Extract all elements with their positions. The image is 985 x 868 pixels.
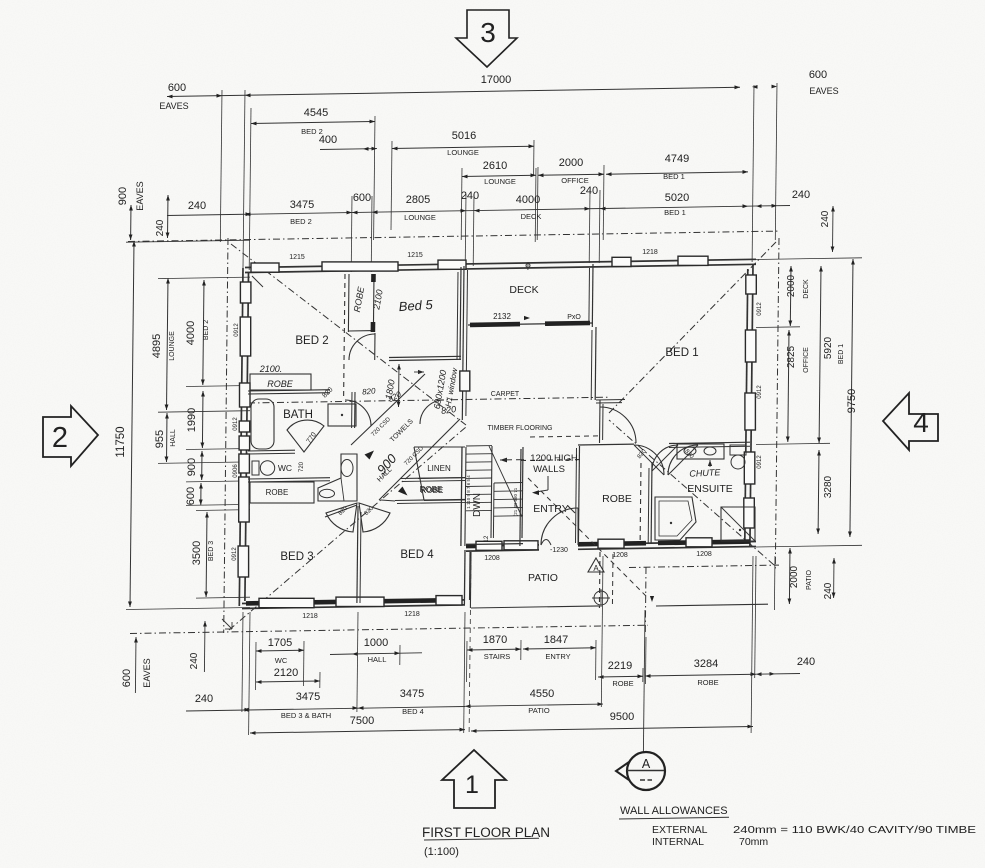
entry door arc 1230	[541, 508, 578, 554]
svg-text:240: 240	[189, 652, 200, 669]
bed5 robe walls	[348, 274, 374, 332]
svg-text:LOUNGE: LOUNGE	[404, 213, 436, 222]
svg-text:ROBE: ROBE	[420, 485, 443, 494]
bed1 door arcs 820x2	[634, 445, 698, 475]
left dim 1990 rotated	[186, 391, 205, 448]
leader line to section circle A	[643, 610, 645, 752]
svg-text:2805: 2805	[406, 194, 430, 206]
svg-text:0912: 0912	[233, 417, 239, 431]
820 label top bed5	[321, 386, 334, 399]
big arrow 2 (west indicator)	[43, 406, 98, 466]
svg-text:900: 900	[186, 458, 198, 476]
right wall window 0912 ensuite	[744, 452, 763, 528]
svg-text:720: 720	[299, 461, 305, 472]
svg-text:900: 900	[117, 187, 129, 205]
bottom dim 1870 STAIRS	[467, 634, 522, 682]
svg-text:70mm: 70mm	[739, 836, 768, 848]
left wall window 0906 wc	[233, 454, 249, 478]
svg-text:FIRST FLOOR PLAN: FIRST FLOOR PLAN	[422, 825, 550, 840]
svg-text:EXTERNAL: EXTERNAL	[652, 824, 708, 836]
carpet label and flooring labels	[488, 391, 553, 432]
door swing arrowheads on hall diagonal	[365, 451, 408, 496]
wall bed2/robe dashed 1200-high	[344, 274, 345, 398]
svg-text:LOUNGE: LOUNGE	[169, 331, 176, 361]
svg-text:PxO: PxO	[567, 314, 581, 321]
patio right slab	[612, 554, 768, 608]
svg-text:EAVES: EAVES	[135, 181, 145, 210]
ensuite west wall	[648, 462, 652, 543]
ensuite vanity two basins	[677, 444, 724, 459]
bed5 walls	[375, 267, 461, 361]
left dim 4000 BED2 rotated	[185, 280, 210, 385]
ensuite wc toilet	[730, 445, 746, 469]
svg-text:240: 240	[797, 656, 815, 668]
svg-text:(1:100): (1:100)	[424, 846, 459, 858]
right dim 2000 PATIO rotated	[788, 548, 814, 604]
left wall windows bath	[233, 383, 250, 450]
dim 4545 BED 2	[251, 107, 375, 240]
dim 2000 OFFICE	[537, 157, 604, 240]
ensuite door arc	[652, 445, 678, 471]
bottom dim 3284 ROBE	[645, 556, 756, 687]
svg-text:1000: 1000	[364, 637, 388, 649]
svg-text:BED 3: BED 3	[208, 541, 215, 561]
svg-text:2: 2	[52, 422, 68, 454]
exterior wall bottom entry section with windows 1208	[466, 541, 539, 562]
svg-text:1215: 1215	[289, 254, 305, 261]
big arrow 4 (east indicator)	[883, 393, 938, 450]
svg-text:PATIO: PATIO	[806, 569, 813, 590]
handwritten 820 deck lower note	[420, 400, 457, 424]
big arrow 1 (south indicator)	[442, 750, 506, 808]
dim 17000 top overall	[167, 74, 740, 98]
hall vanity L-bench	[318, 454, 357, 501]
svg-text:240: 240	[155, 219, 166, 236]
svg-text:1 110 9 8 7 6 5 4: 1 110 9 8 7 6 5 4	[466, 475, 471, 509]
bottom dim 9500	[471, 711, 753, 733]
svg-text:4000: 4000	[185, 321, 197, 345]
dim 2610 LOUNGE	[461, 160, 536, 240]
bottom dim row 240/3475/3475/4550	[186, 688, 603, 720]
svg-text:3475: 3475	[290, 199, 314, 211]
svg-text:2000: 2000	[786, 274, 797, 297]
svg-text:ROBE: ROBE	[697, 678, 718, 687]
svg-text:2120: 2120	[274, 667, 298, 679]
dim 600 EAVES top-left	[159, 82, 250, 111]
svg-text:ROBE: ROBE	[602, 493, 632, 505]
svg-text:4000: 4000	[516, 194, 540, 206]
svg-text:(21 4R 660 71: (21 4R 660 71	[513, 487, 518, 516]
handwritten 690x1200 H1 window note	[414, 366, 460, 410]
wc room	[248, 461, 330, 482]
bed2 door arc	[345, 400, 371, 426]
right dim 240 rotated bottom	[823, 558, 836, 599]
svg-text:400: 400	[319, 134, 337, 146]
svg-text:1870: 1870	[483, 634, 507, 646]
svg-text:LINEN: LINEN	[427, 464, 451, 473]
corner tick at dash-dot bottom-left of bed4	[222, 619, 232, 629]
wall below deck (lounge area) right side	[591, 327, 596, 400]
svg-text:2825: 2825	[786, 345, 797, 368]
right dim 9750 rotated	[846, 259, 858, 537]
svg-text:A: A	[642, 757, 651, 771]
robe room walls	[576, 446, 642, 543]
svg-text:EAVES: EAVES	[159, 101, 188, 111]
svg-text:WC: WC	[278, 463, 292, 473]
top wall pier boxes	[251, 256, 708, 272]
svg-text:5016: 5016	[452, 130, 476, 142]
right dim 2825 OFFICE rotated	[786, 330, 810, 442]
dim 600 EAVES bottom-left rotated	[121, 637, 152, 693]
svg-text:820: 820	[440, 404, 456, 416]
svg-text:ENSUITE: ENSUITE	[687, 483, 733, 495]
stairs block	[461, 446, 523, 546]
svg-text:TIMBER FLOORING: TIMBER FLOORING	[488, 425, 553, 432]
svg-text:240: 240	[820, 210, 831, 227]
svg-text:OFFICE: OFFICE	[561, 176, 589, 185]
svg-text:BED 1: BED 1	[838, 344, 845, 364]
section marker circle A	[616, 752, 665, 790]
svg-text:600: 600	[353, 192, 371, 204]
left dim 955 HALL rotated	[154, 413, 177, 462]
bottom dim 240 right	[756, 656, 815, 676]
svg-text:BED 4: BED 4	[400, 549, 434, 561]
svg-text:0906: 0906	[233, 464, 239, 478]
svg-text:4550: 4550	[530, 688, 554, 700]
svg-text:ROBE: ROBE	[612, 679, 633, 688]
svg-text:3280: 3280	[823, 475, 834, 498]
left extension ticks	[126, 240, 250, 609]
svg-text:BED 2: BED 2	[290, 217, 312, 226]
svg-text:BED 1: BED 1	[664, 208, 686, 217]
svg-text:600: 600	[185, 487, 197, 505]
wall connector bed4/entry vertical	[464, 550, 470, 604]
svg-text:WALL ALLOWANCES: WALL ALLOWANCES	[620, 805, 728, 817]
svg-text:2610: 2610	[483, 160, 507, 172]
svg-text:ROBE: ROBE	[267, 379, 294, 389]
svg-text:5920: 5920	[823, 336, 834, 359]
svg-text:WALLS: WALLS	[533, 464, 565, 475]
robe dashed sliding door lines	[0, 0, 1, 1]
svg-text:1847: 1847	[544, 634, 568, 646]
svg-text:HALL: HALL	[368, 655, 387, 664]
room label BED 2	[295, 335, 328, 347]
svg-text:240: 240	[792, 189, 810, 201]
bed5 robe rotated labels	[352, 285, 385, 313]
room label ROBE (entry robe)	[602, 493, 632, 505]
left wall windows 0912 bed2	[234, 282, 251, 356]
left dim 11750 rotated	[115, 241, 136, 607]
svg-text:1208: 1208	[612, 552, 628, 559]
svg-text:3: 3	[480, 17, 496, 48]
wall allowances note	[619, 805, 976, 848]
svg-text:1705: 1705	[268, 637, 292, 649]
svg-text:BED 2: BED 2	[295, 335, 328, 347]
right dim 240 rotated top	[820, 206, 835, 252]
big arrow 3 (north indicator top)	[456, 10, 517, 67]
eaves dash-dot outline	[128, 231, 779, 634]
svg-text:EAVES: EAVES	[142, 658, 152, 687]
left dim 3500 BED3 rotated	[191, 512, 215, 597]
svg-text:4749: 4749	[665, 153, 689, 165]
bed5 door arc and handwritten 820	[349, 334, 376, 397]
svg-text:1218: 1218	[404, 611, 420, 618]
svg-text:2219: 2219	[608, 660, 632, 672]
svg-text:955: 955	[154, 430, 166, 448]
hall diagonal walls	[325, 374, 460, 517]
svg-text:BED 1: BED 1	[665, 347, 698, 359]
svg-text:BED 3 & BATH: BED 3 & BATH	[281, 711, 331, 720]
svg-text:3475: 3475	[400, 688, 424, 700]
svg-text:240: 240	[580, 185, 598, 197]
svg-text:BED 2: BED 2	[203, 320, 210, 340]
room label BED 1	[665, 347, 698, 359]
svg-text:Bed 5: Bed 5	[398, 297, 434, 314]
top wall window 1215 mid (bed5)	[407, 252, 423, 259]
svg-text:LOUNGE: LOUNGE	[447, 148, 479, 157]
svg-text:-1230: -1230	[550, 547, 568, 554]
right wall window 0912 bed1 lower	[745, 385, 763, 430]
dim 4749 BED 1	[606, 153, 748, 181]
bottom dim 1705 WC	[256, 637, 305, 690]
svg-text:600: 600	[809, 69, 827, 81]
dim chain row 240/3475/600/2805/240/4000/240/5020/240	[167, 185, 810, 226]
svg-text:0912: 0912	[234, 323, 240, 337]
svg-text:ENTRY: ENTRY	[545, 652, 570, 661]
svg-text:A: A	[593, 564, 599, 573]
bath tub	[251, 399, 274, 449]
svg-text:2100.: 2100.	[259, 364, 283, 374]
svg-text:ROBE: ROBE	[266, 488, 289, 497]
svg-text:3500: 3500	[191, 541, 203, 565]
svg-text:9500: 9500	[610, 711, 634, 723]
left dim 240 rotated	[155, 195, 170, 238]
extension lines top	[220, 83, 777, 272]
svg-text:240mm = 110 BWK/40 CAVITY/90: 240mm = 110 BWK/40 CAVITY/90 TIMBE	[733, 824, 976, 836]
room label BED 3	[280, 551, 313, 563]
bath room walls	[248, 390, 355, 454]
left dim 900 EAVES rotated	[117, 181, 145, 240]
right wall window 0912 bed1 upper	[745, 275, 763, 362]
bottom dim 7500	[250, 715, 465, 735]
svg-text:7500: 7500	[350, 715, 374, 727]
svg-text:LOUNGE: LOUNGE	[484, 177, 516, 186]
bottom dim 1000 HALL	[330, 637, 422, 664]
right dim 2000 DECK rotated	[786, 266, 810, 326]
svg-text:PATIO: PATIO	[528, 572, 558, 584]
svg-text:1215: 1215	[407, 252, 423, 259]
exterior wall left (double line with windows)	[239, 268, 248, 606]
svg-text:240: 240	[461, 190, 479, 202]
svg-text:0912: 0912	[757, 455, 763, 469]
bottom extension lines	[242, 556, 775, 735]
bottom dim 2120	[256, 667, 320, 688]
svg-text:3475: 3475	[296, 691, 320, 703]
exterior wall bottom robe/ensuite section with windows 1208	[578, 538, 756, 559]
left dim 600 rotated	[185, 483, 203, 505]
svg-text:2000: 2000	[559, 157, 583, 169]
bed4 robe walls	[381, 478, 465, 504]
svg-text:9750: 9750	[846, 389, 858, 413]
right dim 5920 BED1 rotated	[817, 266, 845, 443]
svg-text:240: 240	[823, 582, 834, 599]
svg-text:1218: 1218	[642, 249, 658, 256]
left dim 4895 LOUNGE rotated	[151, 278, 176, 410]
svg-text:BED 3: BED 3	[280, 551, 313, 563]
room label BATH	[283, 409, 313, 421]
top wall window 1218 right (bed1)	[642, 249, 658, 256]
svg-text:12: 12	[484, 535, 490, 542]
room label ENTRY	[533, 503, 575, 515]
svg-text:EAVES: EAVES	[809, 86, 838, 96]
dim 400	[319, 134, 377, 151]
handwritten 820 near bath	[387, 389, 404, 404]
svg-text:4895: 4895	[151, 334, 163, 358]
svg-text:0912: 0912	[757, 385, 763, 399]
svg-text:240: 240	[188, 200, 206, 212]
svg-text:BED 4: BED 4	[402, 707, 424, 716]
bed3 robe box	[250, 482, 335, 503]
svg-text:0912: 0912	[232, 547, 238, 561]
section diagonal arrow through patio	[528, 478, 654, 602]
svg-text:PATIO: PATIO	[528, 706, 550, 715]
dim 600 EAVES top-right	[752, 69, 839, 96]
svg-text:1: 1	[465, 771, 479, 799]
ensuite shower pentagon	[655, 497, 696, 540]
left wall windows 0912 bed3	[232, 477, 249, 577]
room label BED 4	[400, 549, 434, 561]
A triangle symbol	[588, 558, 604, 573]
bed2 robe box 2100	[250, 364, 311, 390]
handwritten 1800 dim bed5 lower	[383, 364, 401, 407]
svg-text:600: 600	[168, 82, 186, 94]
svg-text:2132: 2132	[493, 312, 511, 321]
svg-text:0912: 0912	[757, 302, 763, 316]
svg-text:4545: 4545	[304, 107, 328, 119]
room label ENSUITE	[687, 483, 733, 495]
svg-text:1208: 1208	[696, 551, 712, 558]
exterior wall top (double line with windows)	[245, 259, 756, 272]
svg-text:DECK: DECK	[521, 212, 542, 221]
room label DECK	[509, 284, 538, 296]
svg-text:CARPET: CARPET	[491, 391, 520, 398]
svg-text:600: 600	[121, 669, 133, 687]
room label PATIO	[528, 572, 558, 584]
dim 240 bottom-left rotated	[189, 621, 207, 672]
linen / robe boxes near stairs	[414, 447, 465, 501]
exterior wall bottom-left (bed3/bed4) with windows 1218	[242, 596, 465, 620]
entry walls	[520, 449, 580, 546]
hall rotated labels	[338, 416, 426, 517]
robe room north wall	[578, 443, 634, 446]
svg-text:1218: 1218	[302, 613, 318, 620]
circle-cross survey mark patio	[592, 589, 610, 607]
deck balustrade centre tick	[526, 262, 530, 270]
corner mark top-left	[252, 276, 263, 287]
1200 high walls note	[500, 453, 578, 495]
svg-text:5020: 5020	[665, 192, 689, 204]
svg-text:INTERNAL: INTERNAL	[652, 836, 704, 848]
bottom dim 2219 ROBE	[598, 660, 643, 688]
svg-text:17000: 17000	[481, 74, 512, 86]
deck walls	[460, 264, 593, 420]
bottom dim 1847 ENTRY	[523, 634, 596, 680]
svg-text:WC: WC	[275, 656, 288, 665]
bath door arc 770	[287, 420, 324, 452]
right dim 3280 rotated	[816, 450, 834, 534]
svg-text:OFFICE: OFFICE	[803, 347, 810, 373]
svg-text:240: 240	[195, 693, 213, 705]
svg-text:DECK: DECK	[509, 284, 538, 296]
svg-text:1200 HIGH: 1200 HIGH	[530, 453, 578, 464]
svg-text:820: 820	[362, 386, 377, 396]
left dim 900 rotated	[186, 451, 204, 480]
svg-text:BATH: BATH	[283, 409, 313, 421]
svg-text:11750: 11750	[115, 426, 127, 457]
svg-text:3284: 3284	[694, 658, 718, 670]
svg-text:HALL: HALL	[170, 429, 177, 447]
svg-text:1208: 1208	[484, 555, 500, 562]
room label Bed 5 handwritten	[398, 297, 434, 314]
svg-text:2000: 2000	[789, 565, 800, 588]
svg-text:STAIRS: STAIRS	[484, 652, 511, 661]
top wall window 1215 left (bed2)	[289, 254, 305, 261]
bed3/bed4 divider wall	[357, 506, 361, 603]
patio outline	[470, 552, 600, 608]
roof hip dashes and ridge	[229, 242, 776, 630]
svg-text:BED 1: BED 1	[663, 172, 685, 181]
dim 5016 LOUNGE upper	[391, 130, 534, 230]
svg-text:CHUTE: CHUTE	[689, 467, 721, 479]
hall door fan arcs bed3/bed4	[326, 503, 390, 532]
corner shower bottom-right	[721, 507, 755, 541]
svg-text:DWN: DWN	[472, 493, 483, 517]
svg-text:4: 4	[913, 407, 929, 438]
chute label and arrow	[689, 460, 721, 479]
svg-text:DECK: DECK	[803, 279, 810, 299]
title FIRST FLOOR PLAN	[422, 825, 550, 858]
bed1 south wall / ensuite north wall	[669, 442, 750, 447]
exterior wall right (double line with windows)	[745, 264, 753, 547]
bed1 lower-left wall step	[596, 400, 636, 444]
right extension ticks	[756, 258, 862, 547]
dashed 1200 wall robe north	[530, 436, 598, 437]
bath shower corner	[328, 404, 356, 426]
